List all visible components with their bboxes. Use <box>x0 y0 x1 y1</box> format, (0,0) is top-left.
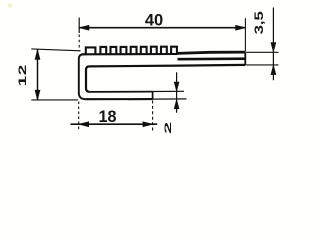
arrow 3,5 down <box>271 43 276 52</box>
svg-text:12: 12 <box>17 64 29 86</box>
svg-text:2: 2 <box>163 122 173 134</box>
tooth T9 <box>171 47 177 54</box>
extension line 12 bottom <box>31 99 78 101</box>
dimension line 18 <box>71 123 158 125</box>
profile leg bottom line <box>86 98 153 100</box>
tooth T2 <box>100 47 106 54</box>
arrow 12 down <box>35 90 40 100</box>
svg-text:3,5: 3,5 <box>253 11 266 34</box>
arrow 18 left <box>79 122 89 127</box>
extension line 2 top <box>153 90 184 92</box>
svg-text:18: 18 <box>98 108 116 126</box>
dimension line 3,5 <box>272 8 274 81</box>
tooth T5 <box>131 47 137 54</box>
profile middle step line <box>178 57 246 60</box>
arrow 2 down <box>174 82 179 91</box>
arrow 18 right <box>143 122 153 127</box>
profile leg end face <box>152 92 154 100</box>
arrow 40 right <box>236 25 246 30</box>
arrow 40 left <box>79 25 89 30</box>
tooth T8 <box>161 47 167 54</box>
dimension line 40 <box>79 27 245 29</box>
tooth T4 <box>121 47 127 54</box>
extension line 3,5 bottom <box>246 64 278 66</box>
profile flange bottom line <box>86 65 245 92</box>
profile right end face <box>244 52 246 65</box>
dimension line 2 <box>176 72 178 113</box>
profile outer left wall and bends <box>79 54 86 99</box>
tooth T1 (wide) <box>86 47 96 54</box>
extension line 18 left <box>78 102 80 131</box>
tooth T7 <box>151 47 157 54</box>
extension line 12 top <box>31 49 80 51</box>
tooth T3 <box>111 47 117 54</box>
extension line 40 left <box>78 18 80 34</box>
extension line 2 bottom <box>153 98 187 100</box>
arrow 3,5 up <box>271 65 276 74</box>
svg-text:40: 40 <box>145 12 163 30</box>
extension line 3,5 top <box>246 51 278 53</box>
profile flange top line (right part) <box>177 52 245 53</box>
arrow 2 up <box>174 99 179 108</box>
extension line 18 right <box>152 101 154 131</box>
arrow 12 up <box>35 50 40 60</box>
extension line 40 right <box>244 18 246 51</box>
profile serration base line <box>82 53 178 55</box>
tooth T6 <box>141 47 147 54</box>
profile leg top line <box>90 91 153 93</box>
scan speck <box>8 4 12 8</box>
dimension line 12 <box>37 50 39 100</box>
